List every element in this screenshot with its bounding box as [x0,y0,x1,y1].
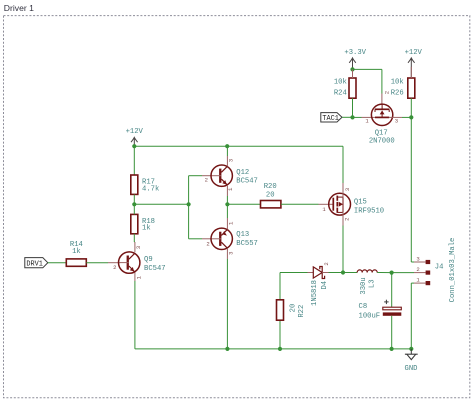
node rail/Q12 collector junction [225,144,229,148]
svg-text:3: 3 [228,252,235,255]
sheet title [4,3,34,13]
wire R17 top [133,146,135,175]
svg-text:20: 20 [266,192,275,200]
wire R14 to Q9 base [86,262,120,264]
wire Q15 source pin [342,212,344,226]
svg-text:10k: 10k [334,79,347,87]
inductor L3 330u [357,270,377,295]
svg-text:Q17: Q17 [375,129,388,137]
svg-text:BC547: BC547 [144,265,166,273]
svg-text:3: 3 [228,159,235,162]
wire Q17 drain pin [381,94,383,105]
svg-text:BC557: BC557 [236,240,258,248]
wire R17-R18 link [133,194,135,214]
node R17/R18 junction [132,202,136,206]
wire R18 to Q9 collector [133,234,136,253]
wire R26 top [410,67,412,78]
svg-text:1: 1 [322,206,326,213]
wire gate node to Q17 [353,116,376,118]
node +12V/R17 junction [132,144,136,148]
svg-text:1: 1 [135,275,142,279]
wire R24 top [352,69,354,78]
svg-text:3: 3 [416,255,419,262]
wire J4 pin1 to ground rail [410,283,412,349]
wire to J4 pin 3 [411,261,425,263]
svg-text:4.7k: 4.7k [142,185,159,193]
wire Q17 source to +12V column [402,116,411,118]
wire D4 to L3 node [329,272,358,274]
svg-text:20: 20 [290,304,298,313]
svg-text:DRV1: DRV1 [26,261,43,269]
svg-text:330u: 330u [360,277,368,294]
ground GND [405,349,418,373]
wire Q15 drain pin [342,183,344,198]
wire R26 bottom [410,98,412,117]
wire output to R20 [227,203,260,205]
svg-text:R20: R20 [264,183,277,191]
svg-text:2N7000: 2N7000 [369,138,395,146]
wire C8 bottom [391,316,393,349]
transistor Q15 IRF9510 [322,188,384,221]
global label DRV1 [25,258,48,269]
wire D4 cathode pin [322,272,328,274]
svg-text:3: 3 [135,246,142,249]
wire R22 top link [280,273,308,300]
transistor Q9 BC547 [113,246,165,280]
diode D4 1N5818 [311,262,330,306]
svg-text:D4: D4 [321,281,329,290]
node +3.3V junction [350,67,354,71]
node L3/C8/J4 junction [390,271,394,275]
svg-text:BC547: BC547 [236,178,258,186]
svg-text:TAC1: TAC1 [322,115,339,123]
svg-text:2: 2 [343,218,350,221]
svg-text:R22: R22 [298,305,306,318]
svg-text:1: 1 [228,221,235,225]
wire +3.3V to Q17 drain [353,69,382,93]
wire J4 pin 2 [392,272,426,274]
svg-text:1: 1 [365,118,369,125]
svg-text:GND: GND [405,365,418,373]
node Q17/+12V column junction [409,115,413,119]
resistor R20 [261,183,281,208]
wire Q15 source drop [342,146,344,183]
node push-pull output junction [225,202,229,206]
svg-text:2: 2 [206,241,209,248]
wire R20 to Q15 gate [281,203,333,205]
wire Q9 emitter to rail [134,272,136,349]
wire L3 to C8 node [377,272,391,274]
svg-text:J4: J4 [435,263,444,271]
resistor R17 [131,175,159,194]
wire DRV1 to R14 [48,262,67,264]
wire +12V column down [410,117,412,262]
svg-text:1k: 1k [142,225,151,233]
svg-text:3: 3 [344,188,351,191]
svg-text:Conn_01x03_Male: Conn_01x03_Male [449,238,457,303]
resistor R26 [391,78,415,98]
svg-text:10k: 10k [391,79,404,87]
capacitor C8 100uF [359,300,402,321]
wire R22 bottom [279,320,281,349]
node rail/R22 junction [278,347,282,351]
node rail/Q13 junction [225,347,229,351]
svg-text:Driver 1: Driver 1 [4,3,34,13]
wire D4 anode pin [308,272,314,274]
svg-text:2: 2 [416,266,419,273]
wire Q15 source to output node [342,226,344,273]
wire Q13 collector [226,204,228,229]
svg-text:R24: R24 [334,90,347,98]
connector J4 Conn_01x03_Male [416,238,456,303]
svg-text:1k: 1k [72,248,81,256]
svg-text:L3: L3 [368,279,376,288]
node Q15/D4/L3 junction [341,270,345,274]
svg-text:Q15: Q15 [354,198,367,206]
resistor R14 [66,241,86,266]
svg-text:C8: C8 [359,303,368,311]
resistor R24 [334,78,356,98]
wire base link vertical [188,176,190,239]
transistor Q12 BC547 [205,159,258,191]
svg-text:1N5818: 1N5818 [311,280,319,306]
wire +12V rail [134,145,343,147]
wire Q12 emitter [226,185,228,204]
node TAC1/R24/gate junction [350,115,354,119]
transistor Q13 BC557 [206,221,258,255]
svg-text:1: 1 [416,276,420,283]
wire C8 top [391,273,393,308]
wire divider to bases [134,203,188,205]
wire R24 bottom [352,98,354,117]
svg-text:+3.3V: +3.3V [344,49,366,57]
svg-text:IRF9510: IRF9510 [354,207,384,215]
svg-text:1: 1 [227,187,234,191]
wire Q12 collector [226,146,228,166]
svg-text:3: 3 [395,118,398,125]
svg-text:+12V: +12V [405,49,423,57]
resistor R18 [131,214,155,233]
global label TAC1 [321,113,342,123]
power +3.3V [344,49,366,69]
resistor R22 [277,300,307,320]
wire ground rail [135,348,411,350]
svg-text:2: 2 [205,176,208,183]
wire Q13 base [189,238,213,240]
svg-text:R26: R26 [391,90,404,98]
node rail/GND junction [409,347,413,351]
svg-text:2: 2 [323,262,330,265]
svg-text:100uF: 100uF [359,313,381,321]
wire Q13 emitter [226,248,228,349]
wire J4 pin 1 [411,282,425,284]
power +12V (left) [126,128,144,146]
svg-text:2: 2 [384,91,391,94]
svg-text:Q12: Q12 [236,169,249,177]
svg-text:2: 2 [113,264,116,271]
node base link junction [187,202,191,206]
svg-text:+12V: +12V [126,128,144,136]
svg-text:Q13: Q13 [236,231,249,239]
power +12V (right) [405,49,423,78]
transistor Q17 2N7000 [365,91,398,146]
wire Q12 base [189,175,213,177]
node rail/C8 junction [390,347,394,351]
wire TAC1 to gate node [342,116,353,118]
wire Q17 source pin [389,116,402,118]
svg-text:Q9: Q9 [144,256,153,264]
